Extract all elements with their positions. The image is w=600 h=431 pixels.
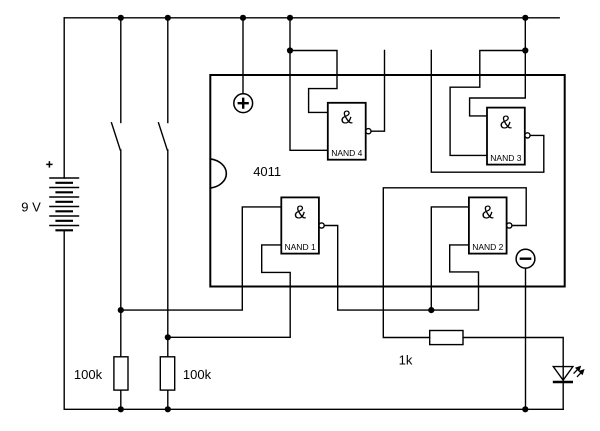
IC minus terminal xyxy=(516,249,535,268)
op-amp U1c NAND 3 xyxy=(487,108,530,165)
svg-text:1k: 1k xyxy=(399,353,413,368)
resistor R2 100k xyxy=(160,357,174,390)
IC plus terminal xyxy=(234,94,253,113)
wire NAND4 output stub xyxy=(371,51,385,132)
LED arrow 1 xyxy=(574,369,578,374)
battery plus polarity mark xyxy=(46,161,52,167)
wire R3 to LED xyxy=(463,338,563,410)
wire bottom ground rail xyxy=(64,408,563,410)
wire NAND3 input A feed xyxy=(470,18,526,116)
wire NAND3 output loop stub xyxy=(431,51,544,173)
switch S2 blade xyxy=(159,123,168,150)
svg-text:9 V: 9 V xyxy=(21,199,41,214)
svg-text:100k: 100k xyxy=(74,367,103,382)
svg-text:NAND 3: NAND 3 xyxy=(490,153,521,163)
resistor R3 1k xyxy=(430,331,463,345)
LED arrow 2 xyxy=(577,372,581,377)
wire battery negative lead xyxy=(63,230,65,409)
wire battery positive lead xyxy=(63,18,65,178)
svg-text:&: & xyxy=(341,108,353,128)
wire R2 bottom lead xyxy=(167,390,169,409)
op-amp U1d NAND 4 xyxy=(328,103,371,160)
wire NAND2 output to R3 xyxy=(383,188,526,338)
wire switch S1 upper lead xyxy=(120,18,122,123)
wire switch S2 upper lead xyxy=(167,18,169,123)
svg-text:4011: 4011 xyxy=(253,164,281,179)
wire switch S1 lower lead xyxy=(120,150,122,357)
svg-text:&: & xyxy=(482,202,494,222)
op-amp U1b NAND 2 xyxy=(469,197,512,253)
wire NAND4 input B feed xyxy=(290,18,328,151)
wire NAND2 input A branch xyxy=(431,207,469,310)
junction node dots xyxy=(118,15,529,413)
wire R1 bottom lead xyxy=(120,390,122,409)
wire NAND1 output to NAND2 inputs xyxy=(324,226,478,311)
op-amp U1a NAND 1 xyxy=(281,197,324,253)
svg-text:&: & xyxy=(500,113,512,133)
wire VDD pin lead xyxy=(242,18,244,94)
svg-text:NAND 4: NAND 4 xyxy=(331,148,362,158)
svg-text:100k: 100k xyxy=(183,367,212,382)
wire NAND1 input B to S2 xyxy=(168,245,290,337)
IC notch xyxy=(210,159,226,188)
battery B1 9V xyxy=(49,178,79,230)
wire NAND3 input B feed xyxy=(450,51,525,156)
wire minus pin to ground rail xyxy=(525,268,527,409)
svg-text:NAND 2: NAND 2 xyxy=(472,242,503,252)
wire switch S2 lower lead xyxy=(167,150,169,357)
IC U1 4011 outline xyxy=(210,75,564,287)
resistor R1 100k xyxy=(114,357,128,390)
svg-text:NAND 1: NAND 1 xyxy=(285,242,316,252)
wire NAND4 input A zigzag xyxy=(290,51,337,113)
wire NAND1 input A to S1 xyxy=(121,207,281,310)
LED D1 xyxy=(553,366,585,382)
wire top supply rail xyxy=(64,17,559,19)
svg-text:&: & xyxy=(294,202,306,222)
switch S1 blade xyxy=(112,123,121,150)
